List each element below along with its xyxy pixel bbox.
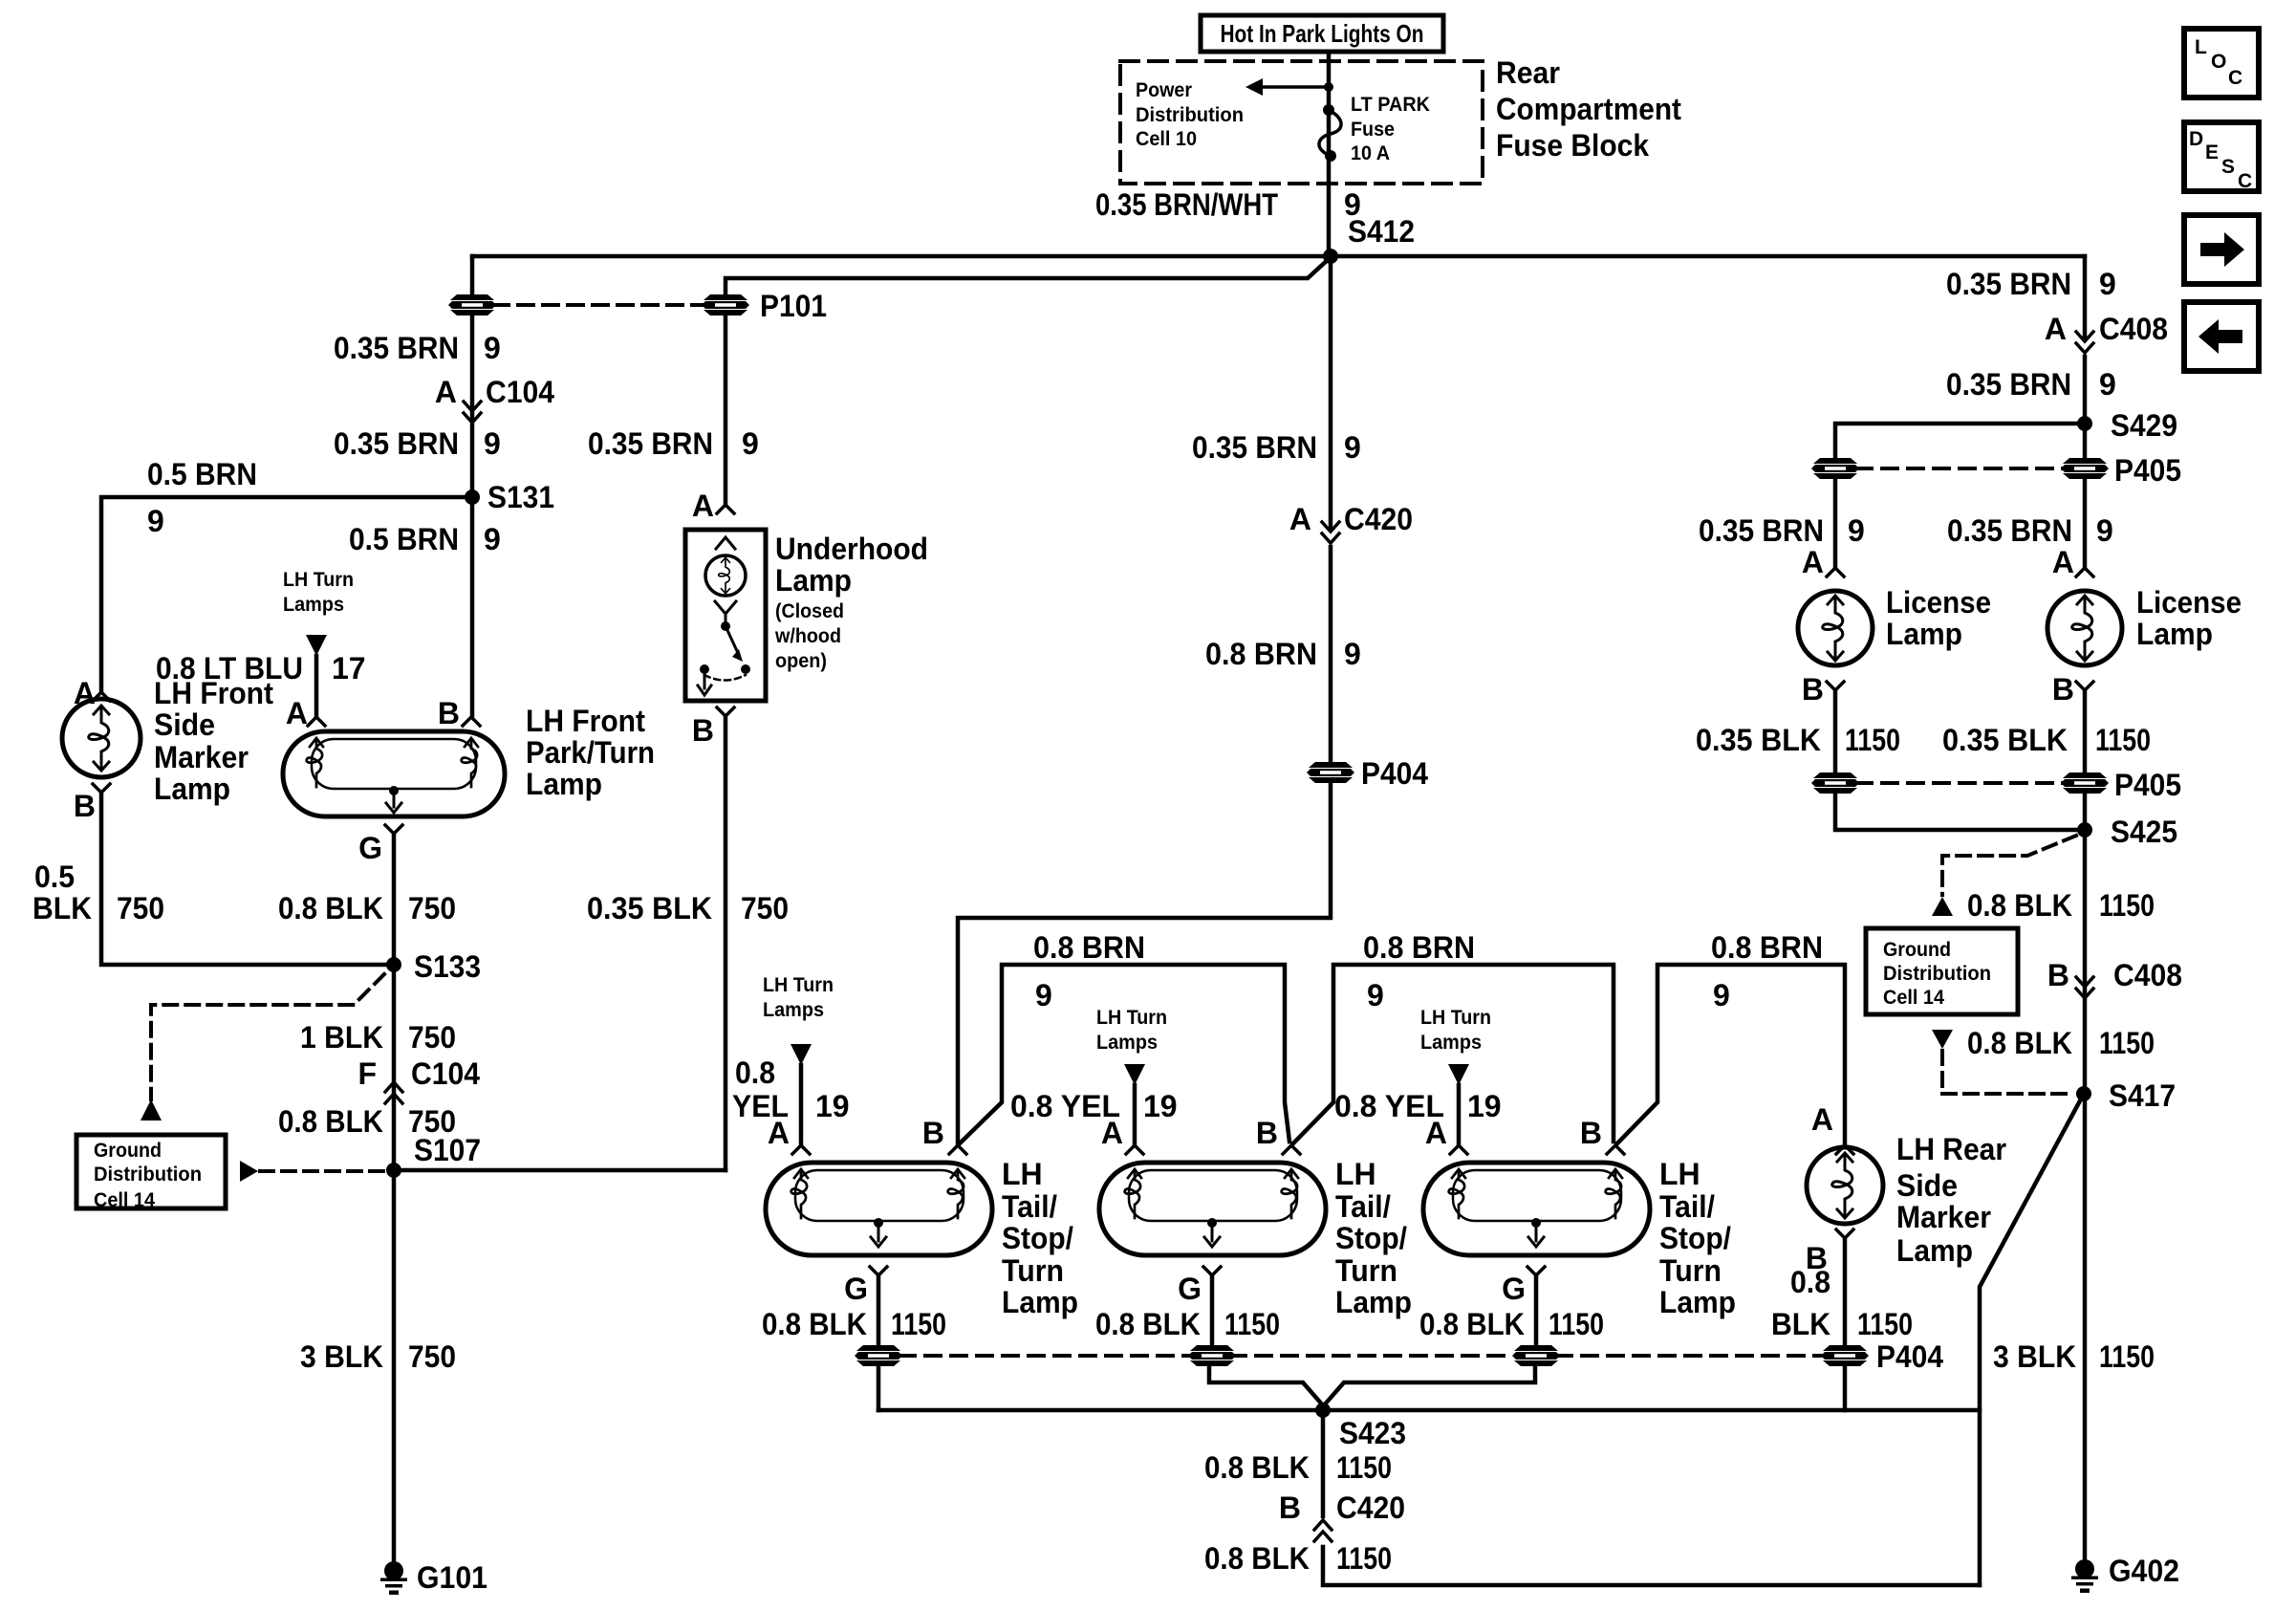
wire 0.5 BRN to side marker	[101, 497, 472, 690]
svg-text:0.8 BRN: 0.8 BRN	[1363, 930, 1475, 965]
connector P405 right (bottom)	[2061, 772, 2109, 794]
svg-text:B: B	[1279, 1490, 1301, 1525]
fuse LT PARK 10 A	[1319, 104, 1341, 162]
label LH Turn Lamps (tail lamp 1)	[763, 974, 834, 1021]
svg-text:Tail/: Tail/	[1002, 1189, 1057, 1224]
svg-text:B: B	[2052, 672, 2074, 707]
svg-text:G101: G101	[417, 1560, 487, 1595]
box Ground Distribution Cell 14 (left)	[76, 1135, 226, 1211]
svg-text:0.5 BRN: 0.5 BRN	[349, 522, 459, 556]
svg-text:A: A	[1811, 1102, 1833, 1137]
svg-text:9: 9	[2096, 513, 2113, 548]
nav box back arrow	[2184, 302, 2259, 371]
nav box forward arrow	[2184, 215, 2259, 284]
wire drop to C104 side	[470, 256, 475, 294]
svg-text:9: 9	[1848, 513, 1865, 548]
arrow to ground distribution (left)	[141, 1099, 162, 1120]
label 0.8 YEL 19 (tail lamp 1)	[732, 1055, 850, 1123]
node S425	[2077, 822, 2092, 838]
svg-text:9: 9	[1344, 637, 1361, 671]
label LH Front Side Marker Lamp	[154, 676, 273, 806]
label 0.35 BLK 1150 (right)	[1942, 723, 2151, 757]
svg-text:1150: 1150	[1224, 1307, 1280, 1341]
dashed pass-through bus P404	[899, 1354, 1824, 1358]
svg-text:B: B	[438, 696, 460, 730]
label LH Turn Lamps (tail lamp 2)	[1096, 1007, 1167, 1054]
svg-text:750: 750	[408, 1020, 456, 1055]
label 0.8 BLK 750	[278, 891, 456, 925]
svg-text:S412: S412	[1348, 214, 1415, 249]
svg-text:3 BLK: 3 BLK	[1993, 1339, 2076, 1374]
svg-text:B: B	[1256, 1116, 1278, 1150]
svg-text:BLK: BLK	[32, 891, 92, 925]
svg-text:Cell 14: Cell 14	[94, 1189, 155, 1211]
svg-text:1150: 1150	[1549, 1307, 1604, 1341]
svg-text:Hot In Park Lights On: Hot In Park Lights On	[1221, 19, 1424, 48]
connector P405 left (bottom)	[1811, 772, 1859, 794]
svg-text:LT PARK: LT PARK	[1351, 94, 1430, 116]
svg-text:Marker: Marker	[1896, 1200, 1991, 1234]
label LH Rear Side Marker Lamp	[1896, 1132, 2006, 1268]
wire 0.8 BRN 9 jumper lamp3-marker	[1617, 965, 1845, 1143]
svg-text:BLK: BLK	[1771, 1307, 1830, 1341]
svg-text:Lamp: Lamp	[1896, 1233, 1973, 1268]
label LH Tail/Stop/Turn Lamp 3	[1659, 1157, 1736, 1319]
svg-text:0.8 BLK: 0.8 BLK	[278, 1104, 383, 1139]
svg-text:P404: P404	[1876, 1339, 1943, 1374]
label 0.35 BRN 9 (below C104)	[334, 426, 501, 461]
label 3 BLK 1150	[1993, 1339, 2155, 1374]
wire S423 to C420 B	[1321, 1410, 1326, 1516]
svg-text:9: 9	[742, 426, 759, 461]
svg-text:0.8 BRN: 0.8 BRN	[1205, 637, 1317, 671]
underhood lamp box	[685, 530, 766, 701]
svg-text:0.8 BLK: 0.8 BLK	[1204, 1541, 1310, 1576]
wire 0.35 BRN to S131	[470, 315, 475, 497]
svg-text:Lamp: Lamp	[775, 563, 852, 598]
text Power Distribution Cell 10	[1136, 79, 1244, 150]
wire 0.8 BRN 9 to P404	[1329, 547, 1333, 761]
svg-text:Tail/: Tail/	[1335, 1189, 1391, 1224]
svg-text:Stop/: Stop/	[1002, 1221, 1073, 1255]
svg-text:1150: 1150	[2099, 1339, 2155, 1374]
svg-text:S131: S131	[487, 480, 554, 514]
svg-text:Marker: Marker	[154, 740, 249, 774]
svg-text:0.8 BLK: 0.8 BLK	[1095, 1307, 1201, 1341]
wire left branch to S425	[1835, 794, 2085, 830]
svg-text:S425: S425	[2111, 815, 2177, 849]
lamp License (right)	[2047, 591, 2122, 665]
svg-text:0.8 BLK: 0.8 BLK	[278, 891, 383, 925]
svg-text:0.8: 0.8	[1790, 1265, 1830, 1299]
svg-text:Rear: Rear	[1496, 55, 1560, 90]
svg-text:0.8: 0.8	[735, 1055, 775, 1090]
svg-text:Lamps: Lamps	[1096, 1032, 1158, 1054]
label 0.8 BLK 1150 (below C420)	[1204, 1541, 1392, 1576]
dashed wire S425 to ground distribution	[1942, 836, 2076, 895]
svg-text:Lamp: Lamp	[2136, 617, 2213, 651]
arrow to ground distribution (right)	[1932, 897, 1953, 916]
svg-text:750: 750	[408, 891, 456, 925]
svg-text:1150: 1150	[891, 1307, 946, 1341]
svg-text:C104: C104	[411, 1056, 480, 1091]
label 0.35 BRN 9 (underhood)	[588, 426, 759, 461]
svg-text:License: License	[2136, 585, 2242, 620]
lamp LH Front Side Marker	[62, 699, 141, 777]
svg-text:G402: G402	[2109, 1554, 2179, 1588]
svg-text:1150: 1150	[1336, 1450, 1392, 1485]
wire 0.8 BLK 1150 to riser	[1323, 1547, 1980, 1585]
wire 0.8 YEL 19 (tail lamp 3)	[1457, 1085, 1462, 1143]
wire to left license lamp	[1833, 480, 1838, 566]
label LH Front Park/Turn Lamp	[526, 704, 655, 801]
label LH Turn Lamps (front)	[283, 569, 354, 616]
svg-text:LH Turn: LH Turn	[283, 569, 354, 591]
svg-text:D: D	[2189, 128, 2203, 150]
svg-text:Distribution: Distribution	[1883, 963, 1991, 985]
svg-text:0.35 BRN: 0.35 BRN	[1947, 513, 2072, 548]
svg-text:Lamps: Lamps	[283, 594, 344, 616]
svg-text:LH: LH	[1335, 1157, 1376, 1191]
underhood lamp internals	[698, 537, 750, 695]
wire 0.8 BLK 1150 from marker	[1843, 1238, 1848, 1344]
svg-text:1150: 1150	[1857, 1307, 1913, 1341]
svg-text:1150: 1150	[1845, 723, 1900, 757]
svg-text:9: 9	[2099, 367, 2116, 402]
svg-text:0.8 BRN: 0.8 BRN	[1711, 930, 1823, 965]
svg-text:LH Rear: LH Rear	[1896, 1132, 2006, 1166]
svg-text:B: B	[692, 713, 714, 748]
ground G101	[380, 1561, 407, 1595]
svg-text:B: B	[74, 789, 96, 823]
svg-text:Ground: Ground	[1883, 939, 1951, 961]
wire 0.8 BLK 1150 (tail lamp 3 ground)	[1534, 1275, 1539, 1344]
connector P404 (tail lamp 3)	[1512, 1345, 1560, 1366]
svg-text:0.35 BRN: 0.35 BRN	[1699, 513, 1824, 548]
svg-text:LH Front: LH Front	[154, 676, 273, 710]
svg-text:S107: S107	[414, 1133, 481, 1167]
lamp LH Rear Side Marker	[1807, 1147, 1883, 1224]
svg-text:L: L	[2195, 36, 2207, 58]
label LH Turn Lamps (tail lamp 3)	[1420, 1007, 1491, 1054]
svg-text:S: S	[2221, 156, 2235, 178]
label 3 BLK 750	[300, 1339, 456, 1374]
label LH Tail/Stop/Turn Lamp 2	[1335, 1157, 1412, 1319]
label 0.8 BLK 1150 (tail lamp 2)	[1095, 1307, 1280, 1341]
lamp LH Tail/Stop/Turn 1 (stadium)	[766, 1163, 992, 1255]
nav box DESC	[2184, 122, 2259, 192]
svg-text:Stop/: Stop/	[1335, 1221, 1407, 1255]
node S423	[1315, 1403, 1331, 1418]
svg-text:Lamp: Lamp	[1886, 617, 1962, 651]
svg-text:0.35 BLK: 0.35 BLK	[1696, 723, 1821, 757]
wire 0.8 BLK 1150 (tail lamp 2 ground)	[1210, 1275, 1215, 1344]
wire 0.35 BLK 750 to S107	[724, 716, 728, 1170]
svg-text:Fuse Block: Fuse Block	[1496, 128, 1649, 163]
arrow to LH Turn Lamps (front)	[306, 635, 327, 656]
svg-text:Lamp: Lamp	[526, 767, 602, 801]
connector P405 right (top)	[2061, 458, 2109, 479]
svg-text:LH Turn: LH Turn	[1420, 1007, 1491, 1029]
connector P404 (tail lamp 2)	[1188, 1345, 1236, 1366]
node S133	[386, 957, 401, 972]
arrow from ground distribution cell (right)	[1932, 1030, 1953, 1049]
connector C104 pin A	[435, 375, 554, 409]
svg-text:0.8 BLK: 0.8 BLK	[1419, 1307, 1525, 1341]
dashed pass-through P405 top	[1856, 467, 2064, 470]
svg-text:0.8 BLK: 0.8 BLK	[1967, 1026, 2072, 1060]
label 0.8 BLK 1150 (above cell box)	[1967, 888, 2155, 923]
svg-text:0.5 BRN: 0.5 BRN	[147, 457, 257, 491]
svg-text:9: 9	[1367, 978, 1384, 1012]
svg-text:Side: Side	[154, 707, 215, 742]
svg-text:C: C	[2228, 67, 2242, 89]
svg-text:1 BLK: 1 BLK	[300, 1020, 383, 1055]
svg-text:Stop/: Stop/	[1659, 1221, 1731, 1255]
svg-text:0.35 BRN: 0.35 BRN	[588, 426, 713, 461]
wire to right license lamp	[2083, 480, 2088, 566]
label 0.35 BRN 9 (center)	[1192, 430, 1361, 465]
label 0.35 BRN 9 (top right)	[1946, 267, 2116, 301]
svg-text:0.35 BLK: 0.35 BLK	[1942, 723, 2068, 757]
nav box LOC	[2184, 29, 2259, 98]
svg-text:G: G	[1502, 1272, 1526, 1306]
label LH Tail/Stop/Turn Lamp 1	[1002, 1157, 1078, 1319]
lamp License (left)	[1798, 591, 1873, 665]
connector C420 pin B	[1279, 1490, 1405, 1525]
text Rear Compartment Fuse Block	[1496, 55, 1681, 163]
svg-text:0.35 BRN/WHT: 0.35 BRN/WHT	[1095, 187, 1278, 222]
svg-text:B: B	[1802, 672, 1824, 707]
svg-text:w/hood: w/hood	[774, 625, 841, 647]
label 0.35 BLK 750	[587, 891, 789, 925]
wire 0.8 BLK 1150 (tail lamp 1 ground)	[877, 1275, 881, 1344]
wire S429 to left license branch	[1835, 424, 2085, 457]
svg-text:0.35 BLK: 0.35 BLK	[587, 891, 712, 925]
label 0.5 BRN 9 (below S131)	[349, 522, 501, 556]
svg-text:Ground: Ground	[94, 1140, 162, 1162]
wire feed to tail lamp 1	[958, 784, 1331, 1143]
wire 0.8 YEL 19 (tail lamp 1)	[799, 1065, 804, 1143]
svg-text:A: A	[1289, 502, 1311, 536]
svg-text:S429: S429	[2111, 408, 2177, 443]
dashed pass-through P405 bottom	[1856, 781, 2064, 785]
dashed wire S133 to ground distribution	[151, 974, 384, 1099]
svg-text:Distribution: Distribution	[1136, 104, 1244, 126]
label 0.35 BRN 9 (above C104)	[334, 331, 501, 365]
svg-text:A: A	[2052, 545, 2074, 579]
svg-text:0.8 BLK: 0.8 BLK	[762, 1307, 867, 1341]
wire 0.5 BLK 750 to S133	[101, 793, 394, 965]
arrow from ground distribution to S107	[240, 1161, 258, 1182]
box Ground Distribution Cell 14 (right)	[1866, 928, 2018, 1014]
svg-text:Distribution: Distribution	[94, 1164, 202, 1186]
connector C408 pin B	[2047, 958, 2182, 992]
svg-text:0.8 BLK: 0.8 BLK	[1967, 888, 2072, 923]
svg-text:B: B	[922, 1116, 944, 1150]
svg-text:19: 19	[1143, 1089, 1178, 1123]
svg-text:1150: 1150	[2095, 723, 2151, 757]
svg-text:750: 750	[408, 1339, 456, 1374]
svg-text:Compartment: Compartment	[1496, 92, 1681, 126]
label 0.35 BLK 1150 (left)	[1696, 723, 1900, 757]
label 0.8 BLK 1150 (below cell box)	[1967, 1026, 2155, 1060]
label 0.5 BRN 9	[147, 457, 257, 538]
svg-text:Tail/: Tail/	[1659, 1189, 1715, 1224]
rear compartment fuse block (dashed box)	[1120, 61, 1483, 184]
svg-text:S133: S133	[414, 949, 481, 984]
svg-text:Lamp: Lamp	[154, 772, 230, 806]
svg-text:Turn: Turn	[1659, 1253, 1722, 1288]
svg-text:License: License	[1886, 585, 1991, 620]
svg-text:G: G	[1178, 1272, 1202, 1306]
lamp LH Tail/Stop/Turn 3 (stadium)	[1423, 1163, 1650, 1255]
wire 0.35 BRN 9 to S429	[2083, 357, 2088, 457]
svg-text:G: G	[358, 831, 382, 865]
svg-text:750: 750	[117, 891, 164, 925]
svg-text:open): open)	[775, 650, 827, 672]
svg-text:C408: C408	[2099, 312, 2168, 346]
svg-text:Underhood: Underhood	[775, 532, 928, 566]
wire dashed pass-through to P101	[493, 303, 704, 307]
label 0.8 BLK 1150 (tail lamp 1)	[762, 1307, 946, 1341]
wire 0.8 LT BLU	[314, 656, 319, 715]
svg-text:A: A	[435, 375, 457, 409]
connector half at C104 drop	[448, 294, 496, 315]
connector C420 pin A	[1289, 502, 1413, 536]
svg-text:19: 19	[815, 1089, 850, 1123]
label box 'Hot In Park Lights On'	[1201, 15, 1443, 52]
svg-text:P405: P405	[2114, 768, 2181, 802]
svg-text:LH Turn: LH Turn	[1096, 1007, 1167, 1029]
svg-text:9: 9	[484, 331, 501, 365]
wire tail lamp 3 ground to S423	[1324, 1366, 1535, 1405]
svg-text:C104: C104	[486, 375, 554, 409]
svg-text:B: B	[2047, 958, 2069, 992]
svg-text:Cell 10: Cell 10	[1136, 128, 1197, 150]
node S412	[1323, 249, 1338, 264]
svg-text:B: B	[1580, 1116, 1602, 1150]
svg-text:Lamp: Lamp	[1002, 1285, 1078, 1319]
svg-text:3 BLK: 3 BLK	[300, 1339, 383, 1374]
svg-text:O: O	[2211, 51, 2226, 73]
svg-text:Park/Turn: Park/Turn	[526, 735, 655, 770]
svg-text:F: F	[357, 1056, 377, 1091]
label 0.8 LT BLU 17	[156, 651, 366, 685]
svg-text:0.35 BRN: 0.35 BRN	[1192, 430, 1317, 465]
connector C408 pin A	[2045, 312, 2168, 346]
svg-text:0.5: 0.5	[34, 859, 75, 894]
wire 0.8 BRN 9 jumper lamp2-lamp3	[1293, 965, 1614, 1143]
svg-text:C: C	[2238, 170, 2252, 192]
svg-text:G: G	[844, 1272, 868, 1306]
wire 0.8 BRN 9 jumper lamp1-lamp2	[960, 965, 1289, 1143]
lamp LH Front Park/Turn (stadium)	[283, 731, 505, 816]
wire 0.35 BLK 1150 right	[2083, 690, 2088, 772]
svg-text:750: 750	[741, 891, 789, 925]
label 0.8 BLK 1150 (above C420)	[1204, 1450, 1392, 1485]
svg-text:0.35 BRN: 0.35 BRN	[1946, 367, 2071, 402]
svg-text:0.35 BRN: 0.35 BRN	[1946, 267, 2071, 301]
svg-text:9: 9	[147, 504, 164, 538]
wire S412 to C420	[1329, 256, 1333, 528]
svg-text:9: 9	[484, 426, 501, 461]
wire marker ground to bus	[1843, 1366, 1848, 1410]
svg-text:Power: Power	[1136, 79, 1192, 101]
svg-text:1150: 1150	[2099, 1026, 2155, 1060]
svg-text:C408: C408	[2113, 958, 2182, 992]
connector P404 (marker)	[1821, 1345, 1869, 1366]
wire 3 BLK 750 to G101	[392, 1170, 397, 1560]
svg-text:Turn: Turn	[1335, 1253, 1397, 1288]
svg-text:Turn: Turn	[1002, 1253, 1064, 1288]
svg-text:Fuse: Fuse	[1351, 119, 1395, 141]
label 0.5 BLK 750	[32, 859, 164, 925]
node S107	[386, 1163, 401, 1178]
connector C104 pin F	[357, 1056, 480, 1091]
svg-text:9: 9	[2099, 267, 2116, 301]
svg-text:19: 19	[1467, 1089, 1502, 1123]
dashed wire to S417	[1942, 1051, 2070, 1094]
svg-text:A: A	[1101, 1116, 1123, 1150]
svg-text:A: A	[2045, 312, 2067, 346]
wire branch to P101	[726, 257, 1331, 294]
label 0.8 YEL 19 (tail lamp 2)	[1010, 1089, 1178, 1123]
label 0.8 BLK 1150 (tail lamp 3)	[1419, 1307, 1604, 1341]
svg-text:(Closed: (Closed	[775, 600, 844, 622]
svg-text:S417: S417	[2109, 1078, 2176, 1113]
svg-text:Lamp: Lamp	[1335, 1285, 1412, 1319]
svg-text:1150: 1150	[2099, 888, 2155, 923]
svg-text:0.8 BLK: 0.8 BLK	[1204, 1450, 1310, 1485]
node S417	[2076, 1086, 2091, 1101]
connector P101	[702, 294, 749, 315]
wire tail lamp 2 ground to S423	[1209, 1366, 1323, 1405]
wire 0.8 YEL 19 (tail lamp 2)	[1133, 1085, 1137, 1143]
svg-text:LH: LH	[1002, 1157, 1043, 1191]
svg-text:9: 9	[1713, 978, 1730, 1012]
wire tail lamp 1 ground to bus	[877, 1366, 881, 1410]
ground G402	[2071, 1559, 2098, 1593]
svg-text:0.35 BRN: 0.35 BRN	[334, 331, 459, 365]
svg-text:Cell 14: Cell 14	[1883, 987, 1944, 1009]
svg-text:0.8 BRN: 0.8 BRN	[1033, 930, 1145, 965]
svg-text:A: A	[1425, 1116, 1447, 1150]
wire ground bus to 3 BLK riser	[878, 1408, 1980, 1413]
svg-text:Lamps: Lamps	[1420, 1032, 1482, 1054]
wire main bus from S412	[472, 254, 2085, 259]
node S429	[2077, 416, 2092, 431]
dashed wire to S107	[260, 1169, 388, 1173]
wire S107 to underhood lamp B	[394, 1168, 726, 1173]
text LT PARK Fuse 10 A	[1351, 94, 1430, 164]
label 0.35 BRN/WHT 9	[1095, 187, 1361, 222]
node S131	[465, 490, 480, 505]
arrow to LH Turn Lamps (tail lamp 1)	[791, 1044, 812, 1065]
svg-text:LH Turn: LH Turn	[763, 974, 834, 996]
svg-text:A: A	[692, 489, 714, 523]
lamp LH Tail/Stop/Turn 2 (stadium)	[1099, 1163, 1326, 1255]
svg-text:17: 17	[332, 651, 366, 685]
arrow to Power Distribution	[1245, 78, 1333, 96]
svg-text:P101: P101	[760, 289, 827, 323]
svg-text:Lamps: Lamps	[763, 999, 824, 1021]
arrow to LH Turn Lamps (tail lamp 2)	[1124, 1064, 1145, 1085]
svg-text:P404: P404	[1361, 756, 1428, 791]
label Underhood Lamp	[774, 532, 928, 672]
svg-text:S423: S423	[1339, 1416, 1406, 1450]
label 0.35 BRN 9 (right license)	[1947, 513, 2113, 548]
